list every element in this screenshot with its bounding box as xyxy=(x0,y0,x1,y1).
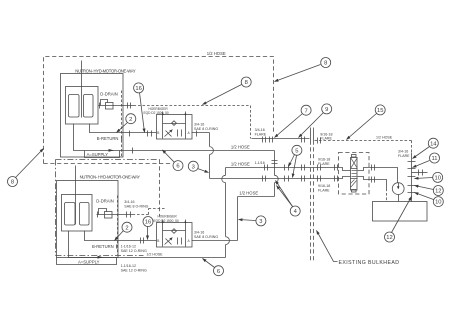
wire L2 to control valve upper port xyxy=(226,168,351,171)
orifice ticks U2 xyxy=(178,238,182,245)
valve V1 right upper port to pump xyxy=(358,168,398,183)
svg-text:1/2 HOSE: 1/2 HOSE xyxy=(146,252,163,256)
relief arrow U1 xyxy=(165,130,173,137)
check valve branch U2 xyxy=(163,230,186,232)
orifice ticks U1 xyxy=(178,130,182,137)
svg-text:8: 8 xyxy=(324,61,327,67)
existing bulkhead double line xyxy=(310,128,312,141)
svg-text:15: 15 xyxy=(377,108,383,114)
wire L3 to control valve lower port xyxy=(210,177,351,179)
check valve branch U1 xyxy=(163,123,186,125)
svg-text:6: 6 xyxy=(217,269,220,275)
drain plug symbol (bottom) xyxy=(105,212,113,219)
dashed enclosure box top motor assembly xyxy=(44,57,274,164)
dashed box control valve xyxy=(339,153,370,195)
svg-text:1-1/16: 1-1/16 xyxy=(255,161,265,165)
balloon 2 top xyxy=(117,123,128,133)
svg-text:NUTRON- HYD-MOTOR-ONE-WAY: NUTRON- HYD-MOTOR-ONE-WAY xyxy=(75,69,136,74)
drain hose dashed right of bulkhead xyxy=(315,141,412,153)
svg-text:FLARE: FLARE xyxy=(255,133,267,137)
balloon 9 xyxy=(299,113,324,138)
svg-text:FLARE: FLARE xyxy=(318,162,330,166)
balloon 8 right xyxy=(275,65,321,82)
svg-text:14: 14 xyxy=(430,141,437,147)
balloon 4 xyxy=(276,181,293,207)
balloon 5 xyxy=(289,155,295,167)
valve V1 right lower port to tank xyxy=(358,177,387,189)
svg-text:1/2 HOSE: 1/2 HOSE xyxy=(207,51,226,56)
hydraulic motor body (bottom) xyxy=(62,195,93,232)
svg-text:10: 10 xyxy=(435,200,441,206)
balloon 8 mid xyxy=(203,85,242,105)
balloon 6 top xyxy=(162,150,174,162)
balloon 15 xyxy=(347,114,377,140)
dashed enclosure box bottom motor assembly xyxy=(56,160,160,256)
wire B-RETURN bottom motor to valve U2 xyxy=(85,231,157,241)
directional control valve V1 xyxy=(351,158,358,191)
tank T1 xyxy=(373,202,428,222)
svg-text:12: 12 xyxy=(386,235,392,241)
relief arrow U2 xyxy=(165,238,173,245)
riser from valve U1 down to line L3 (jumps L1) xyxy=(210,133,214,179)
balloon 7 xyxy=(275,114,303,138)
svg-text:A: A xyxy=(188,131,191,135)
balloon 10 upper xyxy=(415,178,433,179)
svg-text:SAE 8 O-RING: SAE 8 O-RING xyxy=(124,205,148,209)
hydraulic motor body (top) xyxy=(66,87,99,125)
right fitting column xyxy=(411,153,413,202)
svg-text:B-RETURN: B-RETURN xyxy=(97,136,119,141)
svg-text:16: 16 xyxy=(145,220,151,226)
svg-text:1-1/16-12: 1-1/16-12 xyxy=(121,264,136,268)
svg-text:B: B xyxy=(157,239,159,243)
wire A-SUPPLY top motor (L1) xyxy=(74,124,275,151)
counterbalance valve U1 body xyxy=(157,115,193,140)
svg-text:EXISTING BULKHEAD: EXISTING BULKHEAD xyxy=(339,260,400,266)
balloon 16 top xyxy=(140,93,145,133)
dashed enclosure bottom edge top assembly xyxy=(44,163,173,165)
vertical drop L1 to L4 (fitting ticks, jumps L3) xyxy=(275,151,279,197)
svg-text:8: 8 xyxy=(245,80,248,86)
svg-text:8: 8 xyxy=(11,180,14,186)
svg-text:2: 2 xyxy=(125,225,128,231)
svg-text:1/2 HOSE: 1/2 HOSE xyxy=(239,190,258,195)
inner dashed boundary (bottom motor) xyxy=(117,196,119,255)
inner dashed boundary (top motor) xyxy=(121,91,123,157)
motor shaft line (bottom) xyxy=(75,166,77,225)
balloon 2 bottom xyxy=(115,231,124,241)
balloon 14 xyxy=(413,147,430,159)
svg-text:3/4-16: 3/4-16 xyxy=(255,128,265,132)
svg-text:12: 12 xyxy=(435,189,441,195)
drain run to bulkhead xyxy=(252,138,310,140)
svg-text:FLARE: FLARE xyxy=(398,154,410,158)
motor shaft line (top) xyxy=(81,61,83,118)
svg-text:3/4-16: 3/4-16 xyxy=(194,122,204,126)
svg-text:A=SUPPLY: A=SUPPLY xyxy=(78,259,100,264)
drain plug symbol (top) xyxy=(106,103,114,110)
drain hose dashed (bottom) xyxy=(133,209,166,215)
svg-text:1/2 HOSE: 1/2 HOSE xyxy=(376,135,393,139)
svg-text:7: 7 xyxy=(304,108,307,114)
balloon 8 left xyxy=(16,149,44,178)
riser bottom valve out up to L4 xyxy=(237,197,239,241)
balloon 3 bottom xyxy=(239,220,256,221)
svg-text:NUTRON- HYD-MOTOR-ONE-WAY: NUTRON- HYD-MOTOR-ONE-WAY xyxy=(80,175,141,180)
svg-text:SAE 8 O-RING: SAE 8 O-RING xyxy=(194,235,218,239)
balloon 10 lower xyxy=(415,193,434,200)
svg-text:3: 3 xyxy=(192,164,195,170)
svg-text:9: 9 xyxy=(325,107,328,113)
drain hose dashed (top) xyxy=(134,106,251,139)
balloon 6 bottom xyxy=(203,259,215,268)
pump P1 xyxy=(392,183,404,195)
counterbalance valve U2 body xyxy=(157,223,193,248)
svg-text:3: 3 xyxy=(259,219,262,225)
svg-text:SAE 12 O-RING: SAE 12 O-RING xyxy=(121,249,147,253)
balloon 12 upper xyxy=(415,186,434,190)
svg-text:3/4-16: 3/4-16 xyxy=(124,200,134,204)
svg-text:A=SUPPLY: A=SUPPLY xyxy=(87,152,109,157)
svg-text:2: 2 xyxy=(129,117,132,123)
wire L4 series link xyxy=(238,196,275,198)
balloon 3 top xyxy=(198,169,209,173)
wire valve U1 out to riser xyxy=(192,132,210,134)
label box A=SUPPLY (top) xyxy=(85,151,120,158)
svg-text:10: 10 xyxy=(434,176,440,182)
svg-text:3/4-16: 3/4-16 xyxy=(194,230,204,234)
svg-text:SAE 12 O-RING: SAE 12 O-RING xyxy=(121,269,147,273)
svg-text:B-RETURN: B-RETURN xyxy=(92,244,114,249)
svg-text:B: B xyxy=(157,131,159,135)
riser bottom A-SUPPLY up to L2 (jumps L3 and valve-out line) xyxy=(222,168,230,258)
capped test port branch xyxy=(412,172,428,174)
motor assembly box (top) xyxy=(61,74,124,158)
svg-text:1/2 HOSE: 1/2 HOSE xyxy=(231,161,250,166)
wire A-SUPPLY bottom motor xyxy=(69,231,226,258)
svg-text:D-DRAIN: D-DRAIN xyxy=(100,91,117,96)
wire B-RETURN top motor to valve U1 xyxy=(90,124,157,133)
svg-text:6: 6 xyxy=(176,164,179,170)
svg-text:5: 5 xyxy=(295,148,298,154)
svg-text:FLARE: FLARE xyxy=(320,137,332,141)
svg-text:1/2 HOSE: 1/2 HOSE xyxy=(231,145,250,150)
balloon 11 xyxy=(413,161,430,168)
motor assembly box (bottom) xyxy=(57,181,119,258)
svg-text:1-1/16-12: 1-1/16-12 xyxy=(121,244,136,248)
balloon 12 lower xyxy=(392,197,412,233)
svg-text:D-DRAIN: D-DRAIN xyxy=(96,198,113,203)
svg-text:FLARE: FLARE xyxy=(318,189,330,193)
svg-text:16: 16 xyxy=(135,86,141,92)
svg-text:11: 11 xyxy=(431,156,437,162)
balloon 16 bottom xyxy=(147,227,149,240)
label box A=SUPPLY (bottom) xyxy=(57,258,117,265)
svg-text:A: A xyxy=(188,239,191,243)
wire valve U2 out to riser xyxy=(192,240,238,242)
svg-text:SAE 8 O-RING: SAE 8 O-RING xyxy=(194,127,218,131)
